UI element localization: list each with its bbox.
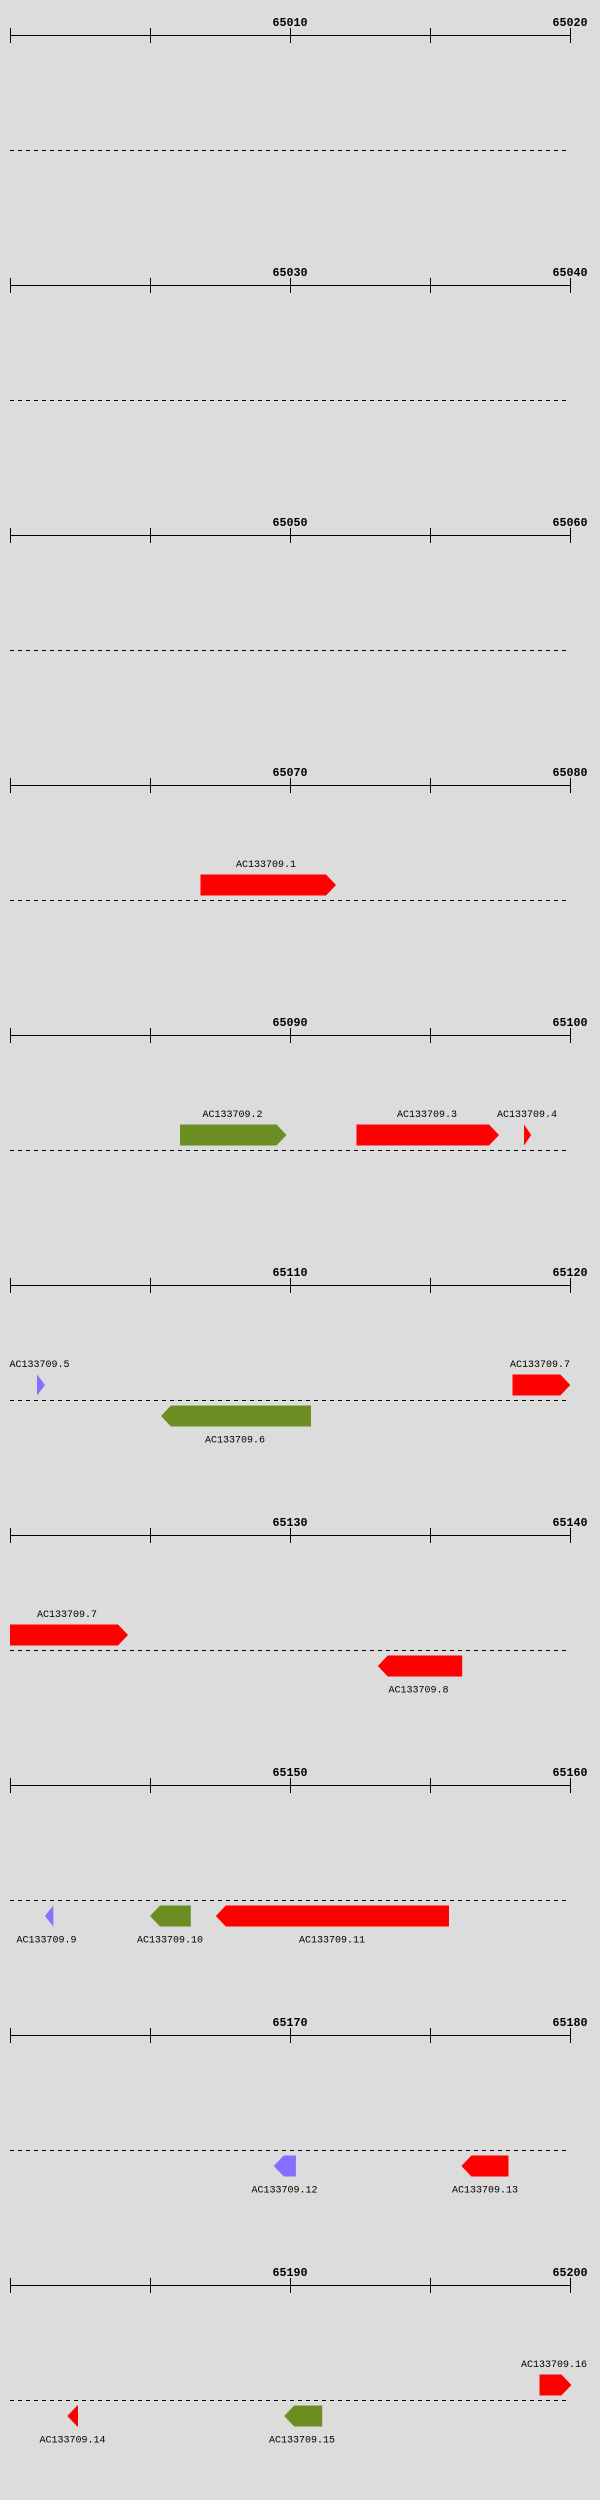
svg-text:AC133709.16: AC133709.16	[521, 2360, 587, 2371]
panel 7 ruler tick 4	[430, 1528, 432, 1543]
panel 7 ruler tick 5	[570, 1528, 572, 1543]
panel 1 ruler tick 4	[430, 28, 432, 43]
panel 5 ruler tick 4	[430, 1028, 432, 1043]
svg-text:AC133709.11: AC133709.11	[299, 1936, 365, 1947]
svg-text:AC133709.14: AC133709.14	[39, 2436, 105, 2447]
feature AC133709.5 arrow	[37, 1375, 45, 1396]
panel 6 ruler line	[10, 1285, 571, 1287]
svg-text:65100: 65100	[553, 1016, 588, 1030]
panel 5 ruler tick 1	[10, 1028, 12, 1043]
panel 5 strand divider (dashed)	[10, 1150, 570, 1152]
panel 3 ruler tick 5	[570, 528, 572, 543]
panel 2 ruler tick 4	[430, 278, 432, 293]
feature AC133709.4 arrow	[524, 1125, 531, 1146]
panel 5 ruler tick 2	[150, 1028, 152, 1043]
feature AC133709.8 arrow	[378, 1656, 462, 1677]
svg-text:65110: 65110	[273, 1266, 308, 1280]
panel 8 ruler tick 4	[430, 1778, 432, 1793]
panel 9 ruler tick 3	[290, 2028, 292, 2043]
panel 10 ruler tick 5	[570, 2278, 572, 2293]
feature AC133709.13 arrow	[461, 2156, 508, 2177]
svg-text:65170: 65170	[273, 2016, 308, 2030]
svg-text:AC133709.10: AC133709.10	[137, 1936, 203, 1947]
panel 9 ruler tick 1	[10, 2028, 12, 2043]
panel 3 ruler tick 3	[290, 528, 292, 543]
panel 10 ruler tick 1	[10, 2278, 12, 2293]
panel 1 strand divider (dashed)	[10, 150, 570, 152]
svg-text:65120: 65120	[553, 1266, 588, 1280]
panel 6 ruler tick 4	[430, 1278, 432, 1293]
panel 4 ruler tick 5	[570, 778, 572, 793]
panel 8 ruler tick 2	[150, 1778, 152, 1793]
panel 1 ruler tick 1	[10, 28, 12, 43]
panel 2 ruler tick 3	[290, 278, 292, 293]
panel 9 ruler tick 4	[430, 2028, 432, 2043]
feature AC133709.16 arrow	[540, 2375, 572, 2396]
panel 6 ruler tick 5	[570, 1278, 572, 1293]
panel 9 ruler tick 2	[150, 2028, 152, 2043]
svg-text:65020: 65020	[553, 16, 588, 30]
panel 7 strand divider (dashed)	[10, 1650, 570, 1652]
feature AC133709.15 arrow	[284, 2406, 322, 2427]
panel 2 strand divider (dashed)	[10, 400, 570, 402]
svg-text:AC133709.12: AC133709.12	[251, 2186, 317, 2197]
svg-text:65200: 65200	[553, 2266, 588, 2280]
panel 6 ruler tick 2	[150, 1278, 152, 1293]
panel 9 strand divider (dashed)	[10, 2150, 570, 2152]
svg-text:AC133709.9: AC133709.9	[16, 1936, 76, 1947]
svg-text:65050: 65050	[273, 516, 308, 530]
svg-text:AC133709.13: AC133709.13	[452, 2186, 518, 2197]
feature AC133709.2 arrow	[180, 1125, 287, 1146]
svg-text:65150: 65150	[273, 1766, 308, 1780]
panel 6 ruler tick 1	[10, 1278, 12, 1293]
feature AC133709.11 arrow	[216, 1906, 449, 1927]
svg-text:AC133709.15: AC133709.15	[269, 2436, 335, 2447]
panel 7 ruler line	[10, 1535, 571, 1537]
panel 4 ruler tick 4	[430, 778, 432, 793]
panel 10 ruler tick 4	[430, 2278, 432, 2293]
panel 10 ruler tick 2	[150, 2278, 152, 2293]
panel 3 ruler tick 2	[150, 528, 152, 543]
panel 7 ruler tick 2	[150, 1528, 152, 1543]
panel 2 ruler tick 1	[10, 278, 12, 293]
panel 2 ruler line	[10, 285, 571, 287]
panel 1 ruler tick 2	[150, 28, 152, 43]
svg-text:65090: 65090	[273, 1016, 308, 1030]
panel 8 strand divider (dashed)	[10, 1900, 570, 1902]
svg-text:AC133709.4: AC133709.4	[497, 1110, 557, 1121]
svg-text:65010: 65010	[273, 16, 308, 30]
svg-text:65160: 65160	[553, 1766, 588, 1780]
panel 1 ruler tick 5	[570, 28, 572, 43]
panel 2 ruler tick 5	[570, 278, 572, 293]
svg-text:65080: 65080	[553, 766, 588, 780]
svg-text:65190: 65190	[273, 2266, 308, 2280]
panel 2 ruler tick 2	[150, 278, 152, 293]
svg-text:AC133709.8: AC133709.8	[388, 1686, 448, 1697]
svg-text:65030: 65030	[273, 266, 308, 280]
svg-text:AC133709.3: AC133709.3	[397, 1110, 457, 1121]
svg-text:65060: 65060	[553, 516, 588, 530]
panel 4 ruler line	[10, 785, 571, 787]
panel 5 ruler line	[10, 1035, 571, 1037]
feature AC133709.12 arrow	[274, 2156, 296, 2177]
panel 8 ruler line	[10, 1785, 571, 1787]
svg-text:AC133709.7: AC133709.7	[510, 1360, 570, 1371]
svg-text:65040: 65040	[553, 266, 588, 280]
panel 3 ruler tick 1	[10, 528, 12, 543]
panel 4 ruler tick 1	[10, 778, 12, 793]
panel 4 ruler tick 3	[290, 778, 292, 793]
panel 9 ruler tick 5	[570, 2028, 572, 2043]
feature AC133709.3 arrow	[357, 1125, 500, 1146]
panel 4 ruler tick 2	[150, 778, 152, 793]
feature AC133709.1 arrow	[201, 875, 337, 896]
feature AC133709.14 arrow	[67, 2406, 78, 2427]
panel 3 ruler tick 4	[430, 528, 432, 543]
panel 10 ruler line	[10, 2285, 571, 2287]
svg-text:AC133709.6: AC133709.6	[205, 1436, 265, 1447]
feature AC133709.7 arrow	[10, 1625, 128, 1646]
feature AC133709.6 arrow	[161, 1406, 311, 1427]
panel 8 ruler tick 3	[290, 1778, 292, 1793]
feature AC133709.9 arrow	[45, 1906, 53, 1927]
panel 5 ruler tick 3	[290, 1028, 292, 1043]
panel 10 strand divider (dashed)	[10, 2400, 570, 2402]
panel 5 ruler tick 5	[570, 1028, 572, 1043]
svg-text:AC133709.1: AC133709.1	[236, 860, 296, 871]
panel 8 ruler tick 5	[570, 1778, 572, 1793]
panel 7 ruler tick 3	[290, 1528, 292, 1543]
panel 3 strand divider (dashed)	[10, 650, 570, 652]
panel 6 ruler tick 3	[290, 1278, 292, 1293]
svg-text:65180: 65180	[553, 2016, 588, 2030]
svg-text:AC133709.2: AC133709.2	[202, 1110, 262, 1121]
feature AC133709.10 arrow	[150, 1906, 191, 1927]
svg-text:65130: 65130	[273, 1516, 308, 1530]
svg-text:AC133709.5: AC133709.5	[9, 1360, 69, 1371]
panel 6 strand divider (dashed)	[10, 1400, 570, 1402]
panel 3 ruler line	[10, 535, 571, 537]
svg-text:65140: 65140	[553, 1516, 588, 1530]
panel 1 ruler tick 3	[290, 28, 292, 43]
panel 10 ruler tick 3	[290, 2278, 292, 2293]
panel 8 ruler tick 1	[10, 1778, 12, 1793]
feature AC133709.7 arrow	[513, 1375, 571, 1396]
svg-text:65070: 65070	[273, 766, 308, 780]
panel 4 strand divider (dashed)	[10, 900, 570, 902]
svg-text:AC133709.7: AC133709.7	[37, 1610, 97, 1621]
panel 1 ruler line	[10, 35, 571, 37]
panel 7 ruler tick 1	[10, 1528, 12, 1543]
panel 9 ruler line	[10, 2035, 571, 2037]
